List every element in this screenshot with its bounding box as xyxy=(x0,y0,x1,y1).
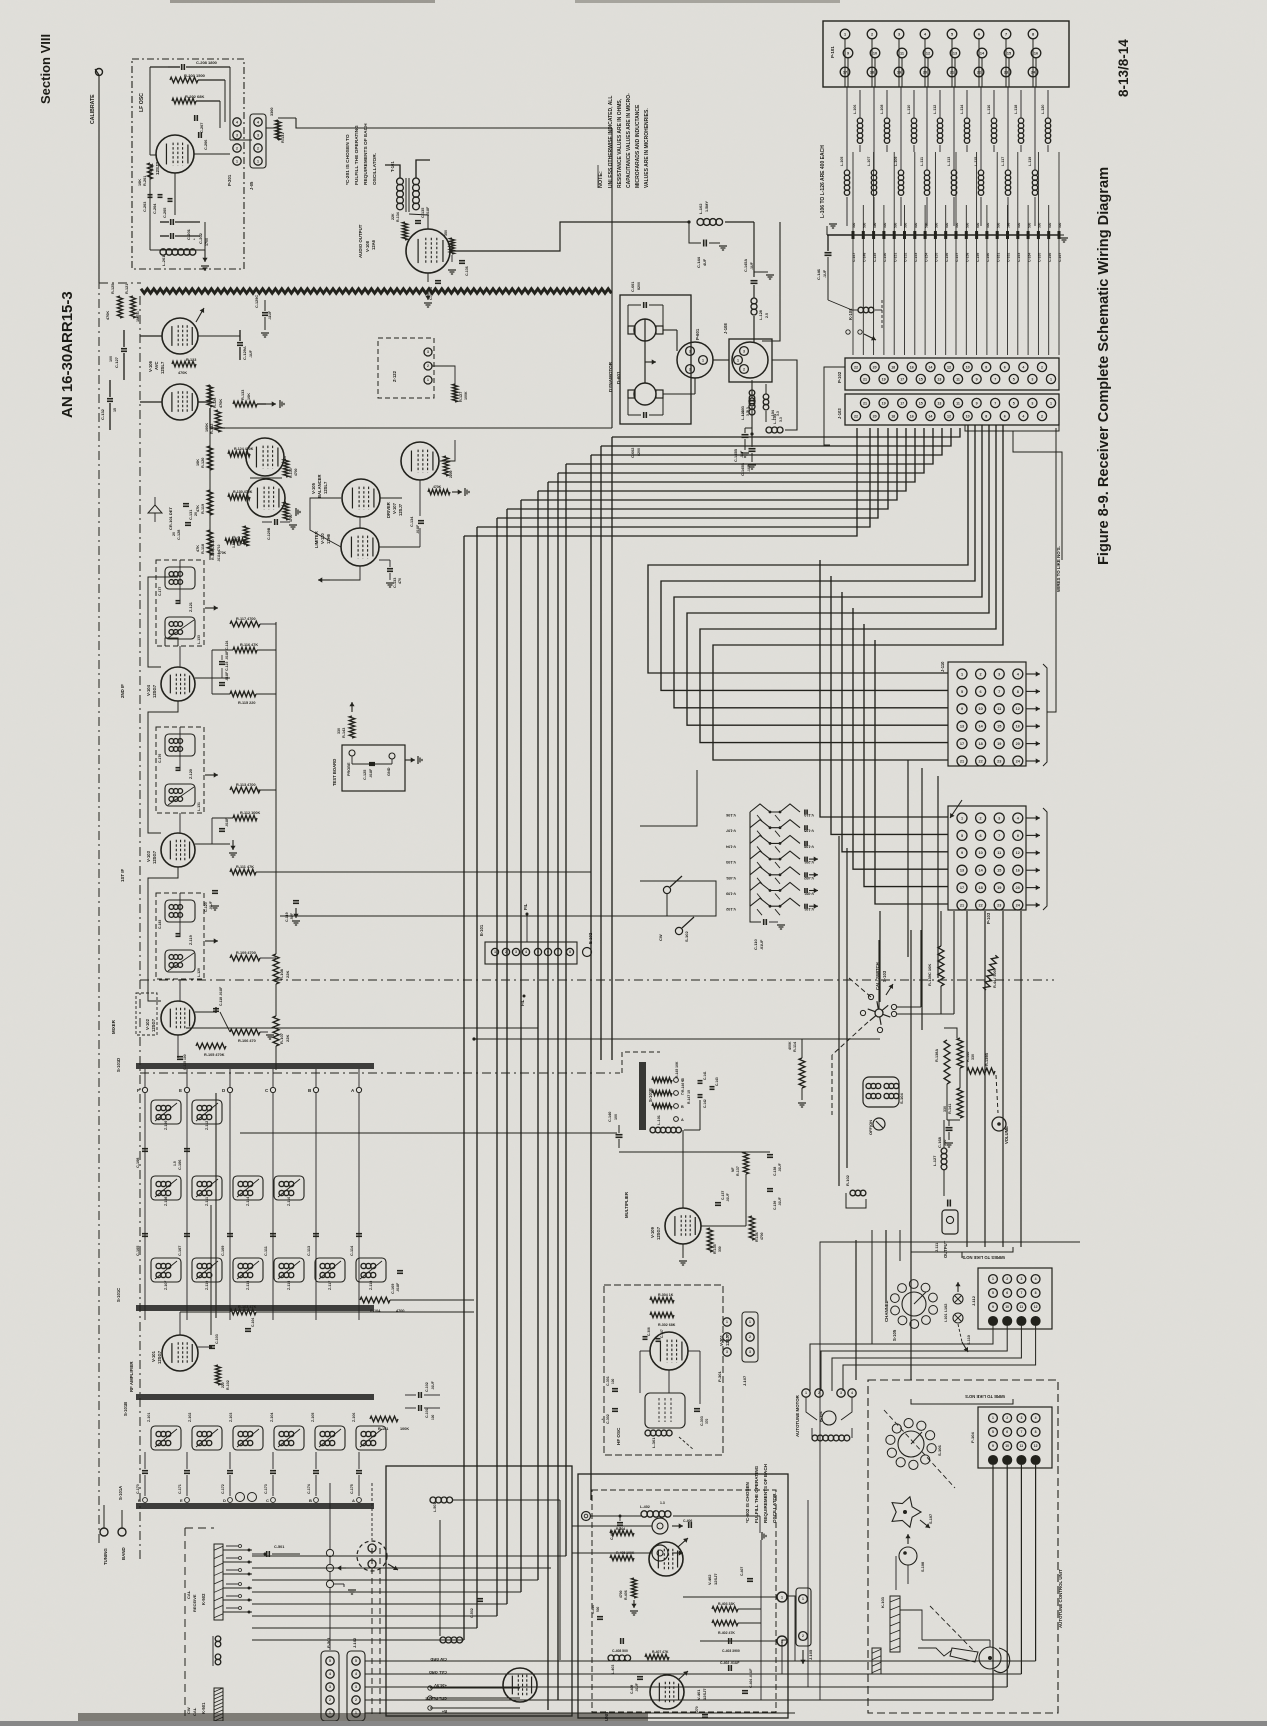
wire arrow xyxy=(1026,852,1040,854)
P-104 pin 15 xyxy=(1017,1456,1026,1465)
tube V-301 xyxy=(650,1332,688,1370)
inductor L-402 1.3 xyxy=(641,1511,647,1517)
capacitor C-164 500 xyxy=(1027,205,1029,231)
P-501 pin 5 xyxy=(326,1657,334,1665)
P-101 pin 11 xyxy=(897,48,907,58)
resistor R-130b 470K xyxy=(228,494,250,500)
capacitor C-119 .5UF xyxy=(293,900,299,902)
capacitor C-129A .1UF xyxy=(237,342,243,344)
P-103 pin 14 xyxy=(976,865,986,875)
autotune control unit box xyxy=(868,1380,1058,1713)
wire xyxy=(464,428,857,536)
E-101 terminal 7 xyxy=(554,948,561,955)
wire xyxy=(674,425,982,708)
E-101 terminal 5 xyxy=(534,948,541,955)
J-112 pin 15 xyxy=(1017,1317,1026,1326)
capacitor C-152 500 xyxy=(904,205,906,231)
box Z-122 xyxy=(378,338,434,398)
P-102 pin 6 xyxy=(1000,362,1009,371)
resistor R-150 4700 xyxy=(283,502,288,520)
wires stage2 xyxy=(195,677,230,679)
wire xyxy=(992,1465,994,1700)
varistor row V-108 xyxy=(750,835,800,843)
dash-dot vertical boundary x=140 xyxy=(139,296,141,1560)
resistor R-140 330 xyxy=(957,1038,963,1068)
connector J-106 xyxy=(729,339,772,382)
risers to cal switch cluster xyxy=(879,911,881,1002)
capacitor C-105 xyxy=(142,1233,148,1235)
IF strip couplings xyxy=(148,577,178,667)
armature upper xyxy=(634,319,656,341)
bottom unit dashed boundary xyxy=(371,1548,373,1716)
arrows at IF boxes xyxy=(205,607,218,609)
J-103 pin 1 xyxy=(1046,398,1055,407)
inductor L-403 xyxy=(608,1655,614,1661)
J-112 pin 10 xyxy=(1003,1303,1012,1312)
wire xyxy=(842,592,948,852)
left loop wire P-102 xyxy=(824,367,845,445)
J-112 pin 5 xyxy=(989,1289,998,1298)
J-103 pin 6 xyxy=(1000,411,1009,420)
bus line D xyxy=(227,1087,232,1092)
P-101 pin 15 xyxy=(1004,48,1014,58)
relay contact xyxy=(223,1549,252,1551)
P-104 pin 4 xyxy=(1031,1414,1040,1423)
tube V-101 RF amp xyxy=(162,1335,198,1371)
LF OSC internal wires xyxy=(150,66,168,68)
vertical bus x=612 xyxy=(611,128,613,428)
J-110 pin 5 xyxy=(957,686,967,696)
inductor L-111 xyxy=(924,170,929,175)
capacitor C-602 8200 xyxy=(643,412,645,418)
P-101 pin 13 xyxy=(950,48,960,58)
P-102 pin 22 xyxy=(851,362,860,371)
resistor R-112 100K xyxy=(233,815,257,821)
P-103 pin 11 xyxy=(994,848,1004,858)
capacitor C-132 15 xyxy=(107,398,113,400)
capacitor C-306 800 xyxy=(643,1336,648,1338)
S-103 contacts xyxy=(891,1004,896,1009)
wire xyxy=(252,1555,566,1557)
J-103 pin 19 xyxy=(879,398,888,407)
P-104 pin 6 xyxy=(1003,1428,1012,1437)
P-103 pin 23 xyxy=(994,900,1004,910)
resistor R-120 10K xyxy=(207,446,213,470)
J-110 pin 1 xyxy=(957,669,967,679)
P-103 pin 10 xyxy=(976,848,986,858)
wire xyxy=(566,428,933,464)
terminal CALIBRATE xyxy=(96,69,103,76)
wire xyxy=(1020,1465,1022,1674)
tuning coils row1 xyxy=(151,1100,181,1124)
resistor R-130 4700 xyxy=(283,459,288,477)
P-101 pin 5 xyxy=(947,29,957,39)
J-102 pin 1 xyxy=(352,1709,360,1717)
vertical feeds to channel area xyxy=(871,1230,873,1344)
resistor R-129 1.5MEG xyxy=(243,526,248,546)
tuning coils row2 xyxy=(151,1176,181,1200)
inductor L-101 xyxy=(650,1127,656,1133)
J-110 pin 4 xyxy=(1013,669,1023,679)
connector J-112 xyxy=(978,1268,1052,1329)
J-110 pin 20 xyxy=(1013,739,1023,749)
tube V-501 xyxy=(503,1668,537,1702)
wire arrow xyxy=(1026,904,1040,906)
long riser x=1056 xyxy=(1055,766,1057,980)
P-102 pin 4 xyxy=(1019,362,1028,371)
inductor L-119 xyxy=(1032,170,1037,175)
capacitor C-147 500 xyxy=(852,152,854,231)
wire y=916 xyxy=(280,881,716,916)
capacitor C-410 500 xyxy=(597,1616,603,1618)
terminal strip E-101 xyxy=(485,942,577,964)
J-112 pin 1 xyxy=(989,1275,998,1284)
resistor R-109 4700 xyxy=(230,955,260,961)
wire xyxy=(496,518,498,1616)
capacitor C-163 500 xyxy=(1017,152,1019,231)
switch wafer S-101A xyxy=(136,1503,374,1509)
J-103 pin 10 xyxy=(963,411,972,420)
capacitor C-406 .01110 xyxy=(688,1522,690,1528)
P-103 pin 16 xyxy=(1013,865,1023,875)
capacitor C-149 500 xyxy=(873,152,875,231)
P-101 pin 20 xyxy=(920,67,930,77)
wire xyxy=(984,911,986,1247)
avc wires xyxy=(140,335,162,337)
wire xyxy=(875,640,948,904)
P-103 pin 18 xyxy=(976,883,986,893)
bracket J-110 xyxy=(1043,664,1047,766)
armature lower xyxy=(634,383,656,405)
capacitor C-301 100 xyxy=(612,1388,618,1390)
wire xyxy=(590,455,592,1500)
wire xyxy=(548,428,915,482)
unit inner items xyxy=(430,1497,436,1503)
rotary switch S-105 CHANNEL xyxy=(902,1292,926,1316)
terminal BAND xyxy=(118,1528,126,1536)
wire x=697 turn xyxy=(640,770,697,826)
capacitor C-145B .1UF xyxy=(751,415,753,447)
dynamotor wires xyxy=(663,329,677,331)
tube V-401 xyxy=(650,1675,684,1709)
capacitor C-101 100 xyxy=(418,1405,420,1411)
resistor R-136 4700 xyxy=(749,1216,755,1240)
J-112 pin 16 xyxy=(1031,1317,1040,1326)
wire arrow xyxy=(1026,708,1040,710)
bfo internal bus xyxy=(760,1540,762,1700)
capacitor C-113 xyxy=(313,1233,319,1235)
P-103 pin 19 xyxy=(994,883,1004,893)
connector J-107 xyxy=(742,1312,758,1362)
unit jacks J-104 J-105 xyxy=(652,1518,668,1534)
inductor L-113 xyxy=(951,170,956,175)
wire xyxy=(843,1326,1036,1391)
J-110 pin 6 xyxy=(976,686,986,696)
resistor R-141 330 xyxy=(957,1088,963,1118)
wire xyxy=(1020,911,1022,1247)
tuning coil Z-104 xyxy=(274,1426,304,1450)
capacitor C-203 50 xyxy=(148,194,153,196)
transformer T-101 xyxy=(397,178,404,185)
P-102 pin 9 xyxy=(972,374,981,383)
wire arrow xyxy=(1026,690,1040,692)
capacitor C-157 500 xyxy=(955,152,957,231)
resistor R-121 1MEG xyxy=(130,296,135,318)
contact circles multiplier xyxy=(674,1078,679,1083)
arrow at switch xyxy=(337,1567,346,1569)
resistor R-147 15 xyxy=(652,1104,672,1109)
resistor R-139B xyxy=(967,1068,995,1074)
P-104 pin 16 xyxy=(1031,1456,1040,1465)
wire 200kc internal xyxy=(439,1520,441,1636)
J-110 pin 8 xyxy=(1013,686,1023,696)
terminal E-102 xyxy=(583,948,592,957)
wire fil stub xyxy=(526,914,528,942)
capacitor C-114 xyxy=(356,1233,362,1235)
wires cluster xyxy=(246,453,250,455)
capacitor C-403 3900 xyxy=(728,1638,730,1644)
P-103 pin 21 xyxy=(957,900,967,910)
capacitor C-201 xyxy=(170,219,172,225)
inductor L-118 xyxy=(1018,118,1023,123)
capacitor C-408 500 xyxy=(620,1638,622,1644)
inductor L-102 1.5MH xyxy=(697,219,704,226)
E-101 terminal 4 xyxy=(522,948,529,955)
wire xyxy=(365,1712,795,1714)
dash boundary relay unit xyxy=(184,1528,186,1716)
resistor R-106 470 xyxy=(230,1029,260,1035)
bell crank lever xyxy=(979,1647,1001,1669)
IF transformer Z-121 xyxy=(156,560,204,646)
J-102 pin 2 xyxy=(352,1696,360,1704)
tube V-109 multiplier xyxy=(665,1208,701,1244)
J-103 pin 16 xyxy=(907,411,916,420)
tuning coils row3 xyxy=(151,1258,181,1282)
P-102 pin 7 xyxy=(991,374,1000,383)
P-104 pin 1 xyxy=(989,1414,998,1423)
switch wafer S-101D xyxy=(136,1063,374,1069)
tube V-102 MIXER xyxy=(161,1001,195,1035)
P-103 pin 6 xyxy=(976,830,986,840)
capacitor C-143 xyxy=(710,1086,715,1088)
inductor L-116 xyxy=(991,118,996,123)
capacitor C-502 xyxy=(477,1598,483,1600)
bracket bus xyxy=(911,1247,1013,1252)
resistor R-115 220 xyxy=(230,691,256,697)
cal switch wires xyxy=(878,940,880,1009)
capacitor C-129C .11UF xyxy=(262,312,268,314)
wire xyxy=(507,428,888,509)
wire y=1133 xyxy=(240,1132,617,1134)
resistor R-108 22K xyxy=(273,954,279,984)
P-501 pin 1 xyxy=(326,1709,334,1717)
capacitor C-168 500 xyxy=(946,1127,953,1129)
inductor L-112 xyxy=(937,118,942,123)
varistor row V-101 xyxy=(750,898,800,906)
J-102 pin 5 xyxy=(352,1657,360,1665)
capacitor C-151 500 xyxy=(893,152,895,231)
P-103 pin 8 xyxy=(1013,830,1023,840)
capacitor C-166 500 xyxy=(1048,205,1050,231)
capacitor C-601 8200 xyxy=(643,302,645,308)
resistor R-127 100K xyxy=(452,384,457,402)
inductor L-114 xyxy=(964,118,969,123)
capacitor C-129B xyxy=(274,519,276,525)
P-102 pin 2 xyxy=(1037,362,1046,371)
capacitor C-139 .01UF xyxy=(767,1188,773,1190)
J-110 pin 11 xyxy=(994,704,1004,714)
P-102 pin 11 xyxy=(953,374,962,383)
tube V-104 2ND IF xyxy=(161,667,195,701)
capacitor C-115 100 xyxy=(177,1056,183,1058)
capacitor C-146 .1UF xyxy=(825,252,832,254)
capacitor C-161 500 xyxy=(996,152,998,231)
capacitor C-136 xyxy=(459,260,465,262)
relay contacts K-501 area xyxy=(430,1687,520,1689)
P-103 pin 22 xyxy=(976,900,986,910)
J-110 pin 18 xyxy=(976,739,986,749)
audio output tube V-108 12A6 xyxy=(406,229,450,273)
geneva star S-107 xyxy=(892,1497,921,1527)
P-104 pin 9 xyxy=(989,1442,998,1451)
capacitor C-104 .01110 xyxy=(245,1328,251,1330)
wire xyxy=(252,1627,477,1629)
resistor 350 cathode xyxy=(450,238,455,254)
capacitor C-409 .01UF xyxy=(637,1676,643,1678)
P-101 pin 7 xyxy=(1001,29,1011,39)
wire calibrate down xyxy=(98,76,100,283)
ribbon wires from K-502 up xyxy=(251,1550,253,1556)
connector P-601 xyxy=(677,342,713,378)
coil L-502 xyxy=(440,1637,446,1643)
P-103 pin 5 xyxy=(957,830,967,840)
P-103 pin 4 xyxy=(1013,813,1023,823)
mixer wires xyxy=(195,1011,216,1013)
capacitor C-204 50 xyxy=(158,194,163,196)
capacitor C-131 20 xyxy=(183,503,189,505)
P-101 pin 19 xyxy=(894,67,904,77)
wire xyxy=(591,428,942,455)
capacitor C-167 500 xyxy=(1058,152,1060,231)
J-110 pin 9 xyxy=(957,704,967,714)
ground top right bfo xyxy=(700,1515,760,1517)
resistor R-124 470K xyxy=(228,451,250,457)
J-110 pin 12 xyxy=(1013,704,1023,714)
tube V-402 xyxy=(649,1542,683,1576)
wire xyxy=(252,1603,507,1605)
J-112 pin 11 xyxy=(1017,1303,1026,1312)
connector J-110 xyxy=(948,662,1026,766)
bracket under J-103 xyxy=(965,425,1059,431)
capacitor C-128 20 xyxy=(185,522,191,524)
latch lever shape xyxy=(895,1556,897,1590)
inductor L-103 3.3 xyxy=(749,390,755,396)
B+ line to filter xyxy=(450,222,689,251)
connector P-103 xyxy=(948,806,1026,910)
resistor R-105 470K xyxy=(196,1043,226,1049)
coil assembly L-301 xyxy=(645,1393,685,1428)
tuning coil Z-102 xyxy=(192,1426,222,1450)
P-101 pin 10 xyxy=(870,48,880,58)
P-103 pin 7 xyxy=(994,830,1004,840)
J-110 pin 15 xyxy=(994,721,1004,731)
wire xyxy=(538,428,906,491)
wire xyxy=(1035,1465,1037,1661)
P-102 pin 10 xyxy=(963,362,972,371)
P-104 pin 12 xyxy=(1031,1442,1040,1451)
P-104 pin 7 xyxy=(1017,1428,1026,1437)
capacitor C-155 500 xyxy=(934,152,936,231)
inductor L-201 xyxy=(160,249,166,255)
resistor R-111 47K xyxy=(230,869,256,875)
P-103 pin 20 xyxy=(1013,883,1023,893)
resistor R-102 220 xyxy=(215,1365,220,1385)
resistor bus x=210 xyxy=(209,408,211,560)
capacitor C-118 .01UF xyxy=(213,1008,219,1010)
op tube V-201 xyxy=(156,135,194,173)
HF OSC shield box xyxy=(604,1285,723,1455)
capacitor C-165 500 xyxy=(1037,152,1039,231)
resistor R-126 470K xyxy=(207,385,213,407)
J-110 pin 16 xyxy=(1013,721,1023,731)
multiplier wires xyxy=(682,1130,684,1208)
J-112 pin 12 xyxy=(1031,1303,1040,1312)
wire xyxy=(648,425,968,673)
varistor row V-402 xyxy=(750,867,800,875)
capacitor C-137 .01UF xyxy=(715,1202,721,1204)
capacitor C-123 .01UF xyxy=(219,682,225,684)
inductor L-105 xyxy=(844,170,849,175)
wire xyxy=(700,425,996,743)
P-102 pin 17 xyxy=(898,374,907,383)
driver tube V-107 xyxy=(401,442,439,480)
small circles xyxy=(236,1493,245,1502)
P-102 pin 12 xyxy=(944,362,953,371)
E-101 terminal 6 xyxy=(544,948,551,955)
resistor R-122 270K xyxy=(225,538,245,543)
J-110 pin 23 xyxy=(994,756,1004,766)
wire xyxy=(506,509,508,1604)
wires hf osc xyxy=(668,1370,670,1393)
dash-dot shield boundary left xyxy=(98,90,100,1545)
autotune inner wires xyxy=(922,1639,990,1641)
resistor R-119 47K xyxy=(207,490,213,515)
connector P-201 pins 1-4 xyxy=(233,157,241,165)
capacitor C-401 220K xyxy=(617,1522,623,1524)
capacitor C-160 500 xyxy=(986,205,988,231)
capacitor bus xyxy=(827,234,1058,236)
wire xyxy=(601,428,951,446)
wire xyxy=(558,428,924,473)
P-101 pin 6 xyxy=(974,29,984,39)
P-103 pin 9 xyxy=(957,848,967,858)
P-101 pin 14 xyxy=(977,48,987,58)
inductor L-120 xyxy=(1045,118,1050,123)
capacitor C-120 .01UF xyxy=(212,890,218,892)
wire xyxy=(864,624,948,887)
resistor R-139C 10K xyxy=(938,946,944,986)
P-101 pin 1 xyxy=(840,29,850,39)
inductor L-108 xyxy=(884,118,889,123)
P-104 pin 14 xyxy=(1003,1456,1012,1465)
relay contact xyxy=(223,1611,252,1613)
LF OSC shield box xyxy=(132,59,244,269)
bus line E xyxy=(184,1087,189,1092)
connector J-111 OUTPUT xyxy=(947,1200,949,1207)
P-104 pin 13 xyxy=(989,1456,998,1465)
wire xyxy=(557,473,559,1700)
resistor R-118 47K xyxy=(207,530,213,555)
